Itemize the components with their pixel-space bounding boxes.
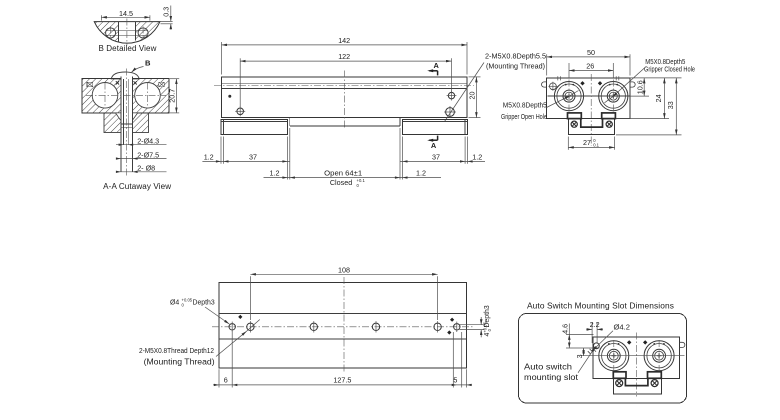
svg-text:5: 5 [453, 375, 457, 384]
section marker A bottom [427, 136, 437, 150]
A-A body (hatched section) [82, 72, 169, 113]
svg-text:Closed: Closed [330, 178, 352, 187]
auto switch slot detail [588, 343, 600, 354]
svg-text:26: 26 [586, 61, 594, 70]
label M5X0.8Depth5 Gripper Closed Hole [605, 59, 696, 103]
svg-text:Gripper Closed Hole: Gripper Closed Hole [644, 66, 695, 73]
leader 2-Ø8 [116, 164, 167, 173]
svg-text:2-M5X0.8Thread Depth12: 2-M5X0.8Thread Depth12 [139, 348, 214, 355]
section marker A top [427, 61, 439, 75]
B detail centerline [126, 19, 128, 46]
svg-text:1.2: 1.2 [472, 153, 482, 162]
hole right small [447, 91, 457, 101]
A-A seal crosses at dome base [116, 81, 137, 84]
diamond markers bottom view [238, 315, 454, 335]
svg-text:Ø4: Ø4 [170, 299, 179, 306]
label Ø4 depth3 with leader [170, 298, 229, 324]
svg-text:Depth3: Depth3 [193, 299, 215, 306]
svg-text:1.2: 1.2 [416, 169, 426, 178]
dimension 26 [569, 61, 613, 78]
svg-text:A: A [434, 61, 440, 70]
dimension 4 depth3 (right side) [460, 305, 493, 337]
end view gripper closed hole (right circle) [599, 82, 628, 111]
end view gripper open hole (left circle) [554, 82, 583, 111]
side clips [542, 82, 636, 87]
svg-text:27: 27 [583, 138, 591, 147]
box right circle [644, 341, 674, 371]
label 2-M5X0.8 thread with leader [139, 320, 260, 367]
dimension 122 [240, 52, 451, 107]
svg-text:2- Ø8: 2- Ø8 [137, 164, 155, 173]
bottom view centerlines [212, 277, 474, 373]
hole right large (mounting thread) [444, 106, 456, 118]
dimension 6 / 127.5 / 5 [213, 332, 472, 388]
box jaw [613, 372, 661, 394]
svg-text:37: 37 [249, 153, 257, 162]
svg-text:B: B [145, 59, 151, 68]
svg-text:Auto switch: Auto switch [524, 362, 572, 371]
svg-text:142: 142 [338, 36, 350, 45]
box centerlines [581, 333, 685, 397]
svg-text:1.2: 1.2 [204, 153, 214, 162]
label auto switch mounting slot [524, 347, 596, 383]
dimension row 1.2 / 37 (left) and 37 / 1.2 (right) [202, 128, 485, 180]
svg-text:M5X0.8Depth5: M5X0.8Depth5 [503, 103, 547, 110]
pin dot [228, 95, 231, 98]
svg-text:2-M5X0.8Depth5.5: 2-M5X0.8Depth5.5 [485, 54, 546, 61]
jaw screws [571, 121, 612, 127]
svg-text:14.5: 14.5 [119, 9, 133, 18]
dimension 0.3 [157, 6, 173, 30]
svg-text:33: 33 [666, 101, 675, 109]
box body [593, 337, 680, 378]
right jaw [402, 119, 467, 134]
svg-text:127.5: 127.5 [333, 375, 351, 384]
svg-text:108: 108 [338, 265, 350, 274]
holes row [229, 321, 460, 332]
svg-text:0.1: 0.1 [593, 143, 599, 148]
svg-text:A: A [431, 141, 437, 150]
svg-text:24: 24 [654, 94, 663, 102]
svg-text:2-Ø4.3: 2-Ø4.3 [137, 137, 159, 146]
label B with leader [132, 59, 152, 73]
svg-text:37: 37 [432, 153, 440, 162]
dimension Ø4.2 [592, 323, 630, 351]
svg-text:50: 50 [587, 48, 595, 57]
svg-text:6: 6 [224, 375, 228, 384]
svg-text:0.3: 0.3 [162, 7, 171, 17]
svg-text:M5X0.8Depth5: M5X0.8Depth5 [645, 59, 685, 66]
svg-text:(Mounting Thread): (Mounting Thread) [144, 358, 215, 367]
leader 2-Ø4.3 [116, 137, 167, 146]
svg-text:Open 64±1: Open 64±1 [324, 169, 362, 178]
A-A stem (screw) [121, 77, 133, 172]
corner hole top-left [548, 82, 557, 91]
box diamonds [627, 340, 647, 344]
dimension row Open 64±1 / Closed [264, 169, 442, 188]
svg-text:mounting slot: mounting slot [524, 373, 579, 382]
svg-text:2.2: 2.2 [590, 320, 600, 329]
dimension 4.6 [560, 324, 599, 349]
bottom body [219, 283, 467, 369]
box frame [519, 314, 687, 404]
svg-text:B Detailed View: B Detailed View [99, 44, 157, 53]
left jaw [221, 119, 288, 134]
dimension 20 [468, 77, 481, 118]
svg-text:2-Ø7.5: 2-Ø7.5 [137, 151, 159, 160]
svg-text:A-A Cutaway View: A-A Cutaway View [103, 182, 171, 191]
box jaw screws [616, 380, 658, 387]
dimension 14.5 [101, 9, 149, 21]
dimension 20.7 [167, 79, 179, 113]
svg-text:4+0.050Depth3: 4+0.050Depth3 [482, 305, 492, 336]
label 2-M5X0.8Depth5.5 with leader [445, 54, 547, 122]
dimension 108 [250, 265, 437, 320]
leader 2-Ø7.5 [116, 151, 167, 160]
svg-text:Gripper Open Hole: Gripper Open Hole [501, 114, 547, 121]
A-A bottom boss (hatched) [104, 113, 149, 133]
svg-text:(Mounting Thread): (Mounting Thread) [486, 64, 545, 71]
A-A corner seal details [87, 82, 164, 86]
A-A centerlines [86, 69, 166, 177]
svg-text:Auto Switch Mounting Slot Dime: Auto Switch Mounting Slot Dimensions [527, 301, 674, 310]
dimension 10.6 [630, 78, 682, 96]
svg-text:10.6: 10.6 [635, 80, 644, 94]
center rail [290, 118, 400, 127]
box left circle [599, 341, 629, 371]
svg-text:3: 3 [575, 354, 584, 358]
hole left [235, 106, 245, 116]
dimension 33 [616, 78, 682, 135]
dimension 24 [616, 78, 669, 119]
B detail bore circles [106, 26, 149, 39]
dimension 3 [575, 348, 584, 358]
diamond markers [580, 81, 602, 85]
end view jaw [568, 113, 616, 134]
dimension 142 [222, 36, 468, 75]
svg-text:1.2: 1.2 [270, 169, 280, 178]
body centerlines [214, 71, 474, 129]
box right clip [680, 342, 685, 347]
svg-text:Ø4.2: Ø4.2 [614, 323, 630, 332]
dimension 27 with tolerance [568, 137, 614, 150]
dimension 2.2 [586, 320, 603, 343]
B detail lens body [92, 20, 162, 46]
svg-text:122: 122 [338, 52, 350, 61]
label M5X0.8Depth5 Gripper Open Hole [501, 91, 579, 121]
dimension 50 [547, 48, 630, 76]
svg-text:4.6: 4.6 [560, 324, 569, 334]
end view centerlines [548, 74, 630, 146]
svg-text:20.7: 20.7 [167, 89, 176, 103]
svg-text:20: 20 [468, 92, 477, 100]
main body [222, 77, 468, 118]
end view body [547, 76, 630, 118]
